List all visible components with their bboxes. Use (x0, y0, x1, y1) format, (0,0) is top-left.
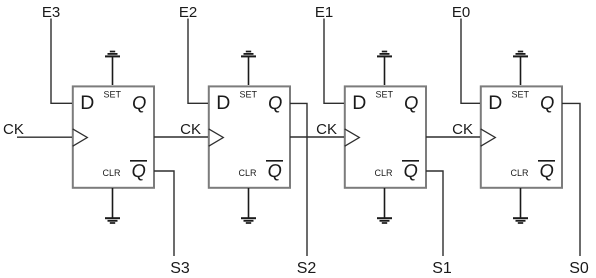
svg-text:E3: E3 (42, 4, 60, 21)
wire CK segment U2 to U3 clock (290, 136, 344, 138)
svg-text:CK: CK (180, 121, 201, 138)
wire E1 to U3 D input (324, 19, 344, 104)
svg-text:D: D (352, 92, 366, 114)
U1 clock input triangle (73, 129, 88, 146)
svg-text:CK: CK (3, 121, 24, 138)
power symbol at U3 SET (377, 52, 392, 86)
svg-text:CK: CK (316, 121, 337, 138)
wire E3 to U1 D input (51, 19, 72, 104)
wire E2 to U2 D input (188, 19, 208, 104)
svg-text:E2: E2 (179, 4, 197, 21)
svg-text:Q: Q (403, 92, 420, 113)
D flip-flop U3 body (345, 86, 426, 187)
svg-text:SET: SET (240, 90, 258, 100)
wire CK input to U1 clock (17, 136, 72, 138)
U4 Qbar overline (538, 160, 555, 162)
ground symbol at U2 CLR (241, 188, 256, 223)
ground symbol at U3 CLR (377, 188, 392, 223)
svg-text:D: D (80, 92, 94, 114)
U4 clock input triangle (481, 129, 496, 146)
ground symbol at U1 CLR (105, 188, 120, 223)
wire U3 Qbar output to S1 (426, 171, 443, 256)
power symbol at U1 SET (105, 52, 120, 86)
svg-text:SET: SET (376, 90, 394, 100)
svg-text:S0: S0 (569, 260, 589, 277)
svg-text:CLR: CLR (375, 168, 394, 178)
power symbol at U4 SET (513, 52, 528, 86)
D flip-flop U4 body (481, 86, 562, 187)
U2 Qbar overline (266, 160, 283, 162)
svg-text:SET: SET (104, 90, 122, 100)
svg-text:S3: S3 (170, 260, 190, 277)
svg-text:E0: E0 (452, 4, 470, 21)
svg-text:CLR: CLR (511, 168, 530, 178)
svg-text:Q: Q (267, 160, 284, 181)
svg-text:E1: E1 (315, 4, 333, 21)
wire CK segment U1 to U2 clock (154, 136, 208, 138)
svg-text:Q: Q (539, 92, 556, 113)
svg-text:D: D (216, 92, 230, 114)
U2 clock input triangle (209, 129, 224, 146)
wire CK segment U3 to U4 clock (426, 136, 480, 138)
U3 Qbar overline (402, 160, 419, 162)
svg-text:SET: SET (512, 90, 530, 100)
svg-text:CLR: CLR (239, 168, 258, 178)
wire U4 Q output to S0 (562, 103, 580, 256)
power symbol at U2 SET (241, 52, 256, 86)
svg-text:Q: Q (403, 160, 420, 181)
svg-text:Q: Q (131, 160, 148, 181)
svg-text:CLR: CLR (103, 168, 122, 178)
wire E0 to U4 D input (461, 19, 480, 104)
wire U2 Q output to S2 (290, 103, 307, 256)
svg-text:S1: S1 (432, 260, 452, 277)
svg-text:S2: S2 (297, 260, 317, 277)
ground symbol at U4 CLR (513, 188, 528, 223)
D flip-flop U2 body (209, 86, 290, 187)
svg-text:CK: CK (452, 121, 473, 138)
D flip-flop U1 body (73, 86, 154, 187)
U3 clock input triangle (345, 129, 360, 146)
wire U1 Qbar output to S3 (154, 171, 174, 256)
svg-text:Q: Q (131, 92, 148, 113)
U1 Qbar overline (130, 160, 147, 162)
svg-text:Q: Q (267, 92, 284, 113)
svg-text:D: D (488, 92, 502, 114)
svg-text:Q: Q (539, 160, 556, 181)
